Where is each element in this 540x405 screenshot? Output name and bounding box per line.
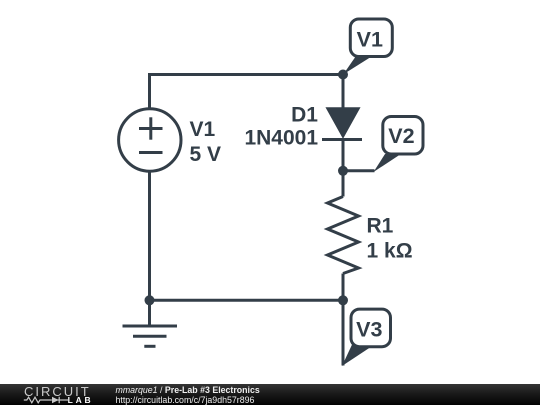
junction dot bottom left [145, 295, 155, 305]
footer title text [116, 386, 260, 395]
wire right vertical upper [342, 75, 345, 109]
label V1 value 5 V [190, 118, 222, 166]
wire ground stem [148, 300, 151, 326]
wire left vertical upper [148, 73, 151, 109]
footer bar [0, 384, 540, 405]
ground [123, 326, 178, 346]
diode D1 [322, 108, 362, 140]
resistor R1 [328, 197, 359, 274]
svg-text:V3: V3 [356, 318, 382, 342]
svg-text:5 V: 5 V [190, 143, 222, 166]
svg-text:D1: D1 [291, 103, 318, 126]
node label V3 callout [342, 309, 391, 366]
svg-text:1N4001: 1N4001 [244, 126, 318, 149]
wire node V2 to resistor [342, 171, 345, 197]
svg-text:1 kΩ: 1 kΩ [367, 240, 413, 263]
voltage source V1 [119, 109, 181, 171]
wire bottom horizontal [150, 299, 344, 302]
junction dot bottom right (node V3) [338, 295, 348, 305]
wire diode to node V2 [342, 140, 345, 171]
label D1 1N4001 [244, 103, 318, 149]
svg-text:V1: V1 [357, 27, 383, 51]
svg-text:V1: V1 [190, 118, 216, 141]
junction dot top (node V1) [338, 70, 348, 80]
wire top horizontal [150, 73, 344, 76]
CircuitLab logo [0, 384, 110, 405]
label R1 value 1 kOhm [367, 214, 413, 262]
wire resistor to bottom node [342, 274, 345, 301]
footer url text [116, 396, 255, 405]
node label V2 callout [374, 117, 424, 173]
junction dot middle (node V2) [338, 166, 348, 176]
wire bottom node to V3 stub [342, 300, 345, 365]
svg-text:V2: V2 [388, 124, 414, 148]
wire node V2 stub [343, 169, 375, 172]
svg-text:LAB: LAB [68, 395, 94, 405]
wire left vertical lower [148, 172, 151, 301]
node label V1 callout [343, 19, 392, 74]
svg-text:R1: R1 [367, 214, 394, 237]
logo resistor-diode glyph [24, 397, 68, 403]
